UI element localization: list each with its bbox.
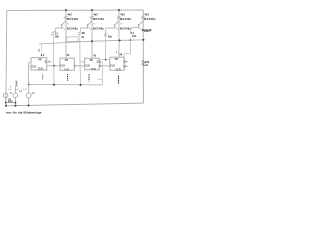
- svg-text:nur für die Blinkanlage: nur für die Blinkanlage: [6, 110, 41, 114]
- svg-text:CLR: CLR: [38, 69, 43, 71]
- svg-text:10n: 10n: [108, 35, 113, 38]
- label under U4: [118, 76, 120, 84]
- svg-text:10n: 10n: [55, 35, 60, 38]
- node link right: [15, 102, 17, 104]
- pin U3 Q bubble: [99, 61, 101, 63]
- wire junction down to bus: [53, 66, 55, 85]
- capacitor C3: [104, 33, 107, 36]
- node supply junction stage 2: [91, 9, 93, 11]
- wire top supply rail: [7, 9, 143, 11]
- wire U3 right stub y79: [97, 78, 102, 80]
- resistor R3: [117, 16, 120, 19]
- svg-text:PR: PR: [65, 60, 69, 62]
- node bottom bus junction x15.5: [15, 105, 17, 107]
- lamp LA2: [13, 93, 18, 98]
- transistor Q1: [61, 21, 65, 26]
- svg-text:CLK: CLK: [60, 66, 65, 68]
- wire stage 3 vertical x119: [118, 10, 120, 57]
- svg-text:BC548c: BC548c: [120, 17, 132, 21]
- wire base chain 2 corner down: [80, 28, 82, 31]
- svg-text:L3: L3: [32, 92, 35, 94]
- lamp LA1: [3, 93, 8, 98]
- capacitor C1: [51, 32, 54, 37]
- svg-text:1k: 1k: [145, 64, 148, 67]
- svg-text:+: +: [10, 86, 12, 88]
- node bottom bus junction x6.8: [5, 105, 7, 107]
- wire LA3 down: [28, 98, 30, 106]
- resistor R2: [90, 16, 93, 19]
- svg-text:La1: La1: [8, 89, 12, 91]
- pin U4 Qbar bubble: [124, 65, 126, 67]
- wire LA2 up to battery: [14, 87, 16, 93]
- label under U2: [67, 74, 69, 81]
- wire Q2 base lead: [81, 27, 88, 29]
- pin U4 Q arrow: [126, 61, 128, 62]
- resistor R1: [64, 16, 67, 19]
- svg-text:14: 14: [37, 49, 41, 52]
- svg-text:BC548c: BC548c: [67, 17, 79, 21]
- wire U1 Q upper stub: [47, 61, 52, 63]
- svg-text:1k: 1k: [81, 36, 84, 39]
- wire U2 Q to U3 CLK: [76, 65, 85, 67]
- label under U3: [88, 74, 90, 81]
- svg-text:4k7: 4k7: [145, 12, 150, 16]
- svg-text:3,4: 3,4: [41, 54, 45, 57]
- pin U4 Qbar arrow: [126, 66, 128, 67]
- node collector line junction x130: [129, 39, 131, 41]
- flip-flop U4 box: [110, 57, 124, 70]
- svg-text:CLK: CLK: [32, 66, 37, 68]
- wire LA2 down: [14, 98, 16, 106]
- capacitor C2: [78, 32, 81, 35]
- svg-text:4k7: 4k7: [120, 12, 125, 16]
- node bottom bus junction x28.5: [28, 105, 30, 107]
- svg-text:41: 41: [67, 54, 70, 57]
- wire U1 lower-left pin stub: [29, 65, 31, 67]
- pin U4 Q bubble: [124, 61, 126, 63]
- node bus junction x80.5: [80, 84, 82, 86]
- wire C4 down to collector line and to FF4 output: [124, 38, 130, 60]
- svg-text:BC548c: BC548c: [120, 27, 132, 31]
- transistor Q3: [114, 21, 119, 26]
- svg-text:BC548c: BC548c: [144, 17, 156, 21]
- svg-text:-: -: [17, 86, 18, 88]
- svg-text:CLK: CLK: [85, 65, 90, 67]
- wire U3 top-right link y59.7: [99, 59, 110, 61]
- wire LA1 down: [5, 98, 7, 106]
- flip-flop U1 box: [31, 58, 47, 70]
- wire Q3 base lead: [106, 27, 115, 29]
- transistor Q4: [138, 21, 143, 26]
- wire C2 down to bus: [79, 35, 82, 85]
- svg-text:R9: R9: [82, 32, 86, 35]
- svg-text:La3: La3: [23, 89, 27, 91]
- flip-flop U2 box: [60, 58, 74, 70]
- wire base chain 4 down: [130, 28, 133, 32]
- node supply junction stage 3: [118, 9, 120, 11]
- wire bottom ground rail: [6, 103, 144, 106]
- wire base chain 3 down: [105, 28, 107, 60]
- node bus junction x28.6: [28, 84, 30, 86]
- wire right rail: [142, 10, 144, 103]
- wire U1 Q to U2 CLK: [47, 65, 60, 67]
- svg-text:4,5V: 4,5V: [8, 101, 13, 104]
- svg-text:4k7: 4k7: [93, 13, 98, 17]
- wire collector feedback line sloped: [39, 40, 143, 44]
- svg-text:Q: Q: [45, 62, 47, 64]
- svg-text:PR: PR: [115, 59, 119, 61]
- svg-text:BC548c: BC548c: [93, 27, 105, 31]
- wire left rail: [5, 10, 8, 105]
- svg-text:PR: PR: [38, 60, 42, 62]
- wire U1 top feed: [41, 44, 43, 58]
- node collector line junction stage2: [91, 40, 93, 42]
- svg-text:L1: L1: [10, 92, 13, 94]
- svg-text:PR: PR: [90, 60, 94, 62]
- wire C1 down to collector line: [52, 37, 54, 66]
- wire base chain 1 corner down: [54, 28, 56, 31]
- node collector line junction right: [142, 39, 144, 41]
- svg-text:T3: T3: [120, 23, 123, 25]
- svg-text:BC548c: BC548c: [67, 27, 79, 31]
- wire clear bus horizontal y85: [29, 84, 103, 86]
- resistor R4: [141, 16, 144, 19]
- transistor Q2: [87, 21, 92, 26]
- resistor R10 zigzag on right rail: [142, 60, 145, 66]
- wire U1 upper-left pin to x28.6: [29, 61, 31, 63]
- wire Q4 base lead: [131, 27, 139, 29]
- node link left: [5, 102, 7, 104]
- wire U3 upper-left pin: [80, 61, 85, 63]
- flip-flop U3 box: [85, 58, 100, 70]
- svg-text:42: 42: [93, 55, 96, 58]
- svg-text:Q: Q: [97, 61, 99, 63]
- node bus junction x54: [53, 84, 55, 86]
- wire U3 Qbar upper to corner: [99, 62, 102, 85]
- svg-text:10n: 10n: [132, 35, 137, 38]
- svg-text:T1: T1: [67, 23, 70, 25]
- node collector line junction stage3: [119, 39, 121, 41]
- battery B2 plates: [15, 81, 18, 86]
- svg-text:CLR: CLR: [116, 69, 121, 71]
- pin U2 Q bubble: [74, 65, 76, 67]
- wire U3 Q to U4 CLK: [99, 65, 110, 67]
- svg-text:CLR: CLR: [91, 69, 96, 71]
- svg-text:CLK: CLK: [110, 65, 115, 67]
- wire battery link y102.6: [6, 102, 16, 104]
- svg-text:4k7: 4k7: [67, 13, 72, 17]
- resistor R9 box: [67, 37, 78, 42]
- svg-text:CLR: CLR: [64, 69, 69, 71]
- svg-text:44: 44: [119, 54, 122, 57]
- wire stage 1 vertical x66: [65, 10, 67, 58]
- label under U1: [42, 75, 44, 80]
- pin U3 Qbar bubble: [99, 65, 101, 67]
- node U1-U2 wire junction: [53, 65, 55, 67]
- svg-text:T2: T2: [93, 23, 96, 25]
- lamp LA3: [26, 93, 31, 98]
- node supply junction stage 1: [65, 9, 67, 11]
- node y59.7 junction: [105, 59, 107, 61]
- wire x28.6 vertical: [28, 62, 30, 93]
- svg-text:100n: 100n: [144, 30, 150, 33]
- svg-text:BC548c: BC548c: [93, 17, 105, 21]
- wire Q1 base lead: [56, 27, 62, 29]
- wire stage 2 vertical x92: [91, 10, 93, 58]
- label left of U4 feed: [115, 52, 118, 53]
